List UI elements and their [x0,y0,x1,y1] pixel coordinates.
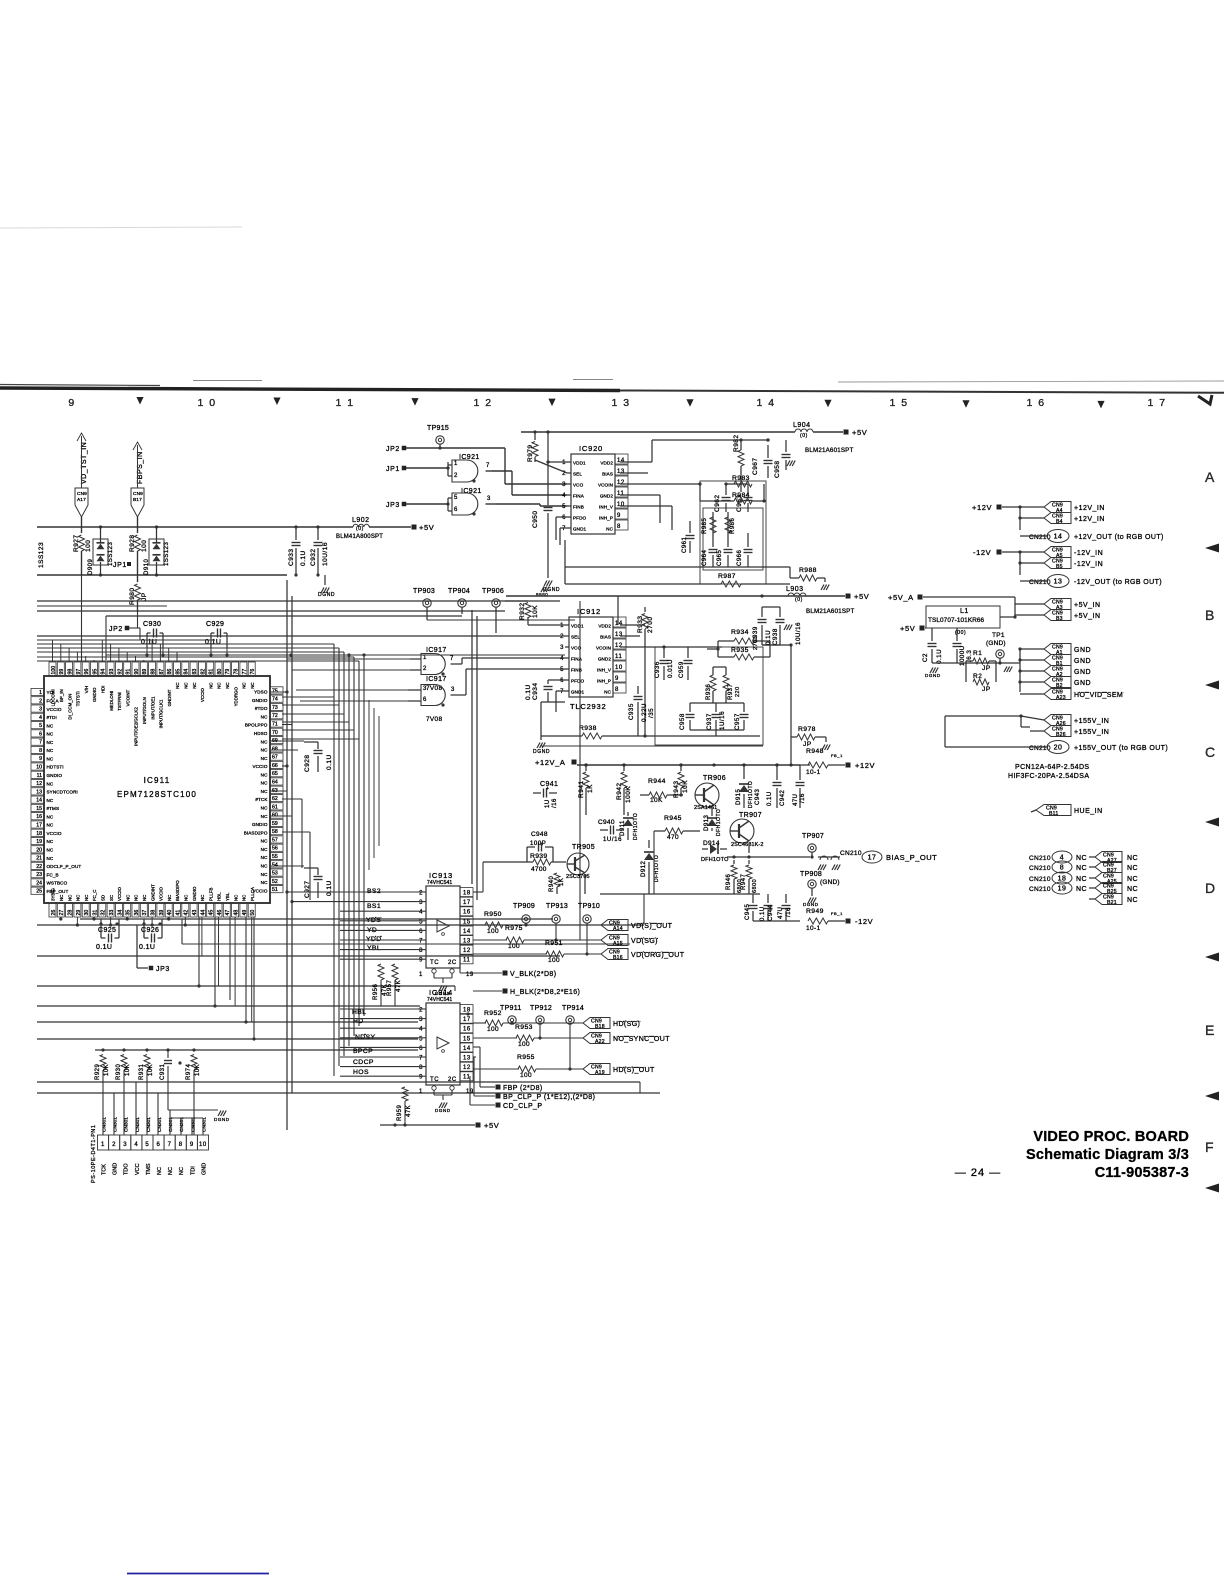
ground c939 [784,625,787,631]
svg-text:JP3: JP3 [386,502,400,509]
svg-text:R936: R936 [706,683,712,700]
ic IC914 body [426,1003,460,1085]
IC913 pin 12 [460,945,473,954]
svg-text:3: 3 [451,687,455,693]
svg-text:C935: C935 [628,703,635,720]
capacitor C958 [689,703,691,712]
svg-text:100: 100 [548,957,560,964]
wire hdr v5 [180,1118,182,1135]
svg-text:18: 18 [463,1008,471,1014]
svg-text:R947: R947 [741,873,747,890]
svg-text:NC: NC [208,682,213,688]
svg-text:CN301: CN301 [201,1117,207,1132]
svg-text:R982: R982 [733,434,740,452]
IC911 left pin 8 [31,746,44,753]
svg-text:-12V_OUT (to RGB OUT): -12V_OUT (to RGB OUT) [1074,579,1162,586]
svg-text:TLC2932: TLC2932 [570,702,606,711]
svg-text:DGND: DGND [925,673,941,678]
svg-text:NC: NC [261,772,268,777]
connector CN9 A19 [583,1064,610,1075]
svg-text:TR905: TR905 [572,844,595,851]
svg-text:92: 92 [117,669,123,675]
connector CN9 A15 [601,935,628,946]
wire IC920 vdd rail [521,431,795,433]
svg-text:CN9: CN9 [77,491,87,497]
svg-text:21: 21 [36,856,42,862]
connector CN9 B16 [601,949,628,960]
svg-text:0.01U: 0.01U [667,659,674,678]
svg-text:PLLCA: PLLCA [250,887,255,901]
svg-text:19: 19 [1058,886,1067,893]
IC911 right pin 57 [270,836,283,843]
svg-text:INH_V: INH_V [599,505,614,510]
svg-text:10U/16: 10U/16 [322,542,329,566]
svg-text:+5V_IN: +5V_IN [1074,602,1101,609]
svg-text:4700: 4700 [531,866,547,873]
svg-text:30: 30 [84,910,90,916]
svg-text:1 4: 1 4 [756,397,775,409]
wire hdr v1 [113,1093,115,1135]
IC911 bottom pin 37 [140,903,147,917]
svg-text:-12V: -12V [855,917,873,926]
svg-text:IC912: IC912 [577,607,601,616]
svg-text:100P: 100P [530,841,546,847]
svg-text:VCCIO: VCCIO [252,764,267,769]
IC911 bottom pin 29 [74,903,81,917]
IC914 pin 18 [460,1005,473,1014]
IC911 right pin 69 [270,736,283,743]
svg-text:NC: NC [47,781,54,786]
power flag +5V 2 [846,594,851,599]
svg-text:L904: L904 [793,422,811,429]
svg-text:36: 36 [134,910,140,916]
svg-text:NC: NC [184,895,189,901]
IC911 bottom pin 32 [99,903,106,917]
ground [824,578,826,582]
wire JP2 to VCO [406,447,505,449]
svg-text:NC: NC [225,682,230,688]
svg-text:D911: D911 [620,820,626,836]
margin arrow [1205,1184,1219,1193]
connector CN9 B3 [1044,610,1071,621]
svg-text:100K: 100K [625,786,632,803]
svg-text:/16: /16 [552,798,558,808]
IC911 top pin 91 [124,662,131,676]
IC911 bottom pin 30 [82,903,89,917]
svg-text:82: 82 [200,669,206,675]
IC911 top pin 85 [174,662,181,676]
wire hdr v7 [202,1118,204,1135]
wire left col x82 [81,575,83,662]
flag H_BLK [472,982,474,991]
svg-text:10: 10 [617,502,625,508]
svg-text:NC: NC [47,732,54,737]
wire tp feeds [427,619,575,621]
IC914 pin 15 [460,1033,473,1042]
svg-text:+155V_IN: +155V_IN [1074,729,1109,736]
svg-text:-12V: -12V [973,548,991,557]
ic IC913 body [426,886,460,968]
wire JP2 stub [129,627,140,629]
IC911 top pin 80 [215,662,222,676]
svg-text:61: 61 [272,804,278,810]
wire filter bottom [690,702,744,704]
svg-text:R950: R950 [484,911,502,918]
svg-text:C959: C959 [678,661,685,678]
svg-text:7V08: 7V08 [426,716,442,723]
svg-text:R934: R934 [731,629,749,636]
wire bias row [586,854,600,856]
svg-text:15: 15 [463,919,471,925]
svg-text:VCOIN: VCOIN [598,483,613,488]
svg-text:26: 26 [51,910,57,916]
IC912 pin 13 [613,628,626,638]
wire collector bus [586,814,624,816]
svg-text:NC: NC [261,789,268,794]
capacitor C962 [725,484,727,495]
svg-text:A22: A22 [595,1039,605,1045]
svg-text:DGND: DGND [803,902,819,907]
svg-text:35: 35 [126,910,132,916]
power flag -12V right [846,919,851,924]
svg-text:D915: D915 [736,788,742,805]
svg-text:10K: 10K [682,780,689,793]
svg-text:52: 52 [272,879,278,885]
wire ic917 feeds [287,658,410,660]
IC911 right pin 59 [270,819,283,826]
svg-text:JP2: JP2 [386,446,400,453]
svg-text:100: 100 [51,666,57,675]
svg-text:/16: /16 [786,907,792,917]
svg-text:PFDO: PFDO [571,679,584,684]
svg-text:PS-10PE-D4T1-PN1: PS-10PE-D4T1-PN1 [91,1125,97,1183]
svg-text:DGND: DGND [435,1108,451,1113]
resistor R931 [146,1050,148,1054]
svg-text:NC: NC [261,739,268,744]
IC911 top pin 78 [232,662,239,676]
svg-text:CN301: CN301 [168,1117,174,1132]
IC911 left pin 16 [31,813,44,820]
svg-text:NC: NC [47,814,54,819]
svg-text:TSTFRNI: TSTFRNI [117,692,122,711]
capacitor C933 [295,527,297,540]
svg-text:NC: NC [67,895,72,901]
svg-text:NC: NC [47,740,54,745]
svg-text:47: 47 [225,910,231,916]
svg-text:HDTSTI: HDTSTI [47,765,64,770]
wire verticals from IC911 bottom pins [60,917,62,919]
svg-text:NC: NC [250,682,255,688]
svg-text:BLM21A601SPT: BLM21A601SPT [805,447,854,454]
svg-text:5: 5 [419,919,423,925]
svg-text:6: 6 [562,515,566,521]
svg-text:BLM21A601SPT: BLM21A601SPT [806,608,855,615]
svg-text:YDSO: YDSO [254,690,268,695]
svg-text:MEDLONI: MEDLONI [109,691,114,711]
svg-text:20: 20 [1054,745,1063,752]
IC911 right pin 60 [270,811,283,818]
svg-text:1K: 1K [559,878,565,886]
svg-text:100: 100 [520,1072,532,1079]
svg-text:NC: NC [47,798,54,803]
svg-text:TP904: TP904 [448,588,470,595]
svg-text:23: 23 [36,872,42,878]
svg-text:74: 74 [272,697,278,703]
svg-text:DFH1OTO: DFH1OTO [716,809,722,836]
svg-text:39: 39 [159,910,165,916]
svg-text:BLM41A800SPT: BLM41A800SPT [336,534,383,540]
IC911 top pin 84 [182,662,189,676]
IC911 bottom pin 34 [115,903,122,917]
capacitor C942 [776,765,778,780]
svg-text:R946: R946 [726,873,732,890]
capacitor C950 [544,507,553,509]
svg-text:64: 64 [272,779,278,785]
IC911 top pin 97 [74,662,81,676]
svg-text:17: 17 [463,900,471,906]
wire vertical x472 [471,610,473,884]
IC911 left pin 15 [31,804,44,811]
svg-text:8: 8 [617,524,621,530]
svg-text:R939: R939 [530,853,547,860]
svg-text:44: 44 [200,910,206,916]
IC911 bottom pin 40 [165,903,172,917]
svg-text:5: 5 [454,495,458,501]
svg-text:3: 3 [39,707,42,713]
svg-text:7: 7 [39,740,42,746]
wire mid stubs right of IC911 [282,724,292,726]
connector CN9 A14 [601,920,628,931]
wire hdr v2 [135,1082,137,1135]
inductor L904 [620,431,795,433]
wire to +5V [813,431,843,433]
svg-text:83: 83 [192,669,198,675]
svg-text:NC: NC [184,682,189,688]
svg-text:BIAS: BIAS [602,472,613,477]
svg-text:R937: R937 [728,683,734,700]
svg-text:31: 31 [92,910,98,916]
svg-text:6: 6 [423,697,427,703]
svg-text:4: 4 [419,910,423,916]
capacitor C935 electrolytic [637,686,639,694]
svg-text:C939: C939 [752,626,759,643]
IC911 bottom pin 46 [215,903,222,917]
svg-text:INH_P: INH_P [599,516,613,521]
svg-text:V/H: V/H [84,686,89,693]
svg-text:13: 13 [1054,579,1063,586]
capacitor C959 [687,647,689,658]
svg-text:5: 5 [145,1142,149,1148]
svg-text:C964: C964 [702,549,708,566]
inductor L1 box [926,606,1000,628]
connector CN9 B26 [1044,726,1071,737]
resistor R982 [740,440,742,448]
svg-text:6: 6 [39,731,42,737]
svg-text:HD(S)_OUT: HD(S)_OUT [613,1067,655,1074]
wire inh [620,494,660,496]
svg-text:+12V_IN: +12V_IN [1074,516,1105,523]
svg-text:BIASDIPO: BIASDIPO [175,880,180,901]
IC912 pin 8 [613,683,626,693]
svg-text:10K: 10K [148,1064,154,1076]
wire vdd2 side [620,461,652,463]
wire bundle bends to IC913 [333,954,335,956]
svg-text:R955: R955 [517,1054,535,1061]
svg-text:EPM7128STC100: EPM7128STC100 [117,790,197,799]
svg-text:BP_IN: BP_IN [59,689,64,702]
IC911 bottom pin 38 [149,903,156,917]
svg-text:11: 11 [463,958,470,964]
wire vdd2 ic912 [620,624,645,626]
svg-text:VCCIO: VCCIO [117,887,122,901]
svg-text:HDSO: HDSO [254,731,268,736]
svg-text:R940: R940 [549,875,555,892]
connector CN9 B4 [1044,513,1071,524]
wire vertical bundle2 [368,700,370,870]
svg-text:2SC3705: 2SC3705 [566,874,590,880]
svg-text:94: 94 [101,669,107,675]
svg-text:TP909: TP909 [513,903,535,910]
svg-text:71: 71 [272,722,278,728]
IC912 pin 10 [613,661,626,671]
svg-text:8: 8 [39,748,42,754]
svg-text:11: 11 [37,773,42,779]
wire misc column x644 [643,894,645,924]
capacitor C2 [931,628,933,641]
svg-text:NC: NC [47,839,54,844]
svg-text:+5V_A: +5V_A [888,593,914,602]
diode D912 [648,840,650,848]
svg-text:1 2: 1 2 [473,397,492,409]
svg-text:1 1: 1 1 [335,397,354,409]
svg-text:57: 57 [272,837,278,843]
svg-text:VCO: VCO [573,483,584,488]
svg-text:NC: NC [125,895,130,901]
svg-text:HOS: HOS [353,1069,369,1076]
svg-text:NC: NC [1076,865,1087,872]
wire JP3 to gate inputs [406,503,448,505]
svg-text:87: 87 [159,669,165,675]
svg-text:8: 8 [615,687,619,693]
svg-text:/35: /35 [648,708,655,718]
wire sel diagonal [535,460,567,473]
svg-text:D909: D909 [88,558,94,575]
svg-text:-12V_IN: -12V_IN [1074,561,1103,568]
inductor L902 [353,524,369,527]
svg-text:C938: C938 [772,628,779,645]
svg-text:NC: NC [142,895,147,901]
svg-text:NC: NC [47,823,54,828]
svg-text:C958: C958 [679,713,686,730]
IC914 pin 12 [460,1062,473,1071]
IC913 pin 11 [460,955,473,964]
svg-text:YBL: YBL [225,892,230,901]
svg-text:R979: R979 [527,444,534,462]
IC911 bottom pin 28 [66,903,73,917]
svg-text:7: 7 [486,463,490,469]
wire right edge of IC911 to bundle [282,696,334,698]
wire top +5V bus [37,526,353,528]
svg-text:#TDI: #TDI [47,715,57,720]
wire nc chevron spine [1119,851,1121,904]
svg-text:IC913: IC913 [429,871,453,880]
svg-text:TMS: TMS [146,1163,152,1175]
svg-text:2C: 2C [448,1077,457,1083]
svg-text:3: 3 [419,900,423,906]
svg-text:11: 11 [617,491,624,497]
svg-text:6800: 6800 [752,879,758,893]
svg-text:CN210: CN210 [1029,865,1051,872]
wire jumper to CN210 17 [818,856,840,858]
IC911 top pin 93 [107,662,114,676]
svg-text:R944: R944 [648,778,666,785]
svg-text:0.1U: 0.1U [300,550,307,566]
svg-text:YBL: YBL [367,945,381,952]
svg-text:84: 84 [184,669,190,675]
IC913 pin 14 [460,926,473,935]
capacitor C932 electrolytic [317,527,319,540]
svg-text:VD_TST_IN: VD_TST_IN [81,442,88,484]
svg-text:1K: 1K [587,784,594,793]
svg-text:0.1U: 0.1U [936,649,943,664]
svg-text:L902: L902 [352,517,370,524]
svg-text:C942: C942 [780,789,786,806]
svg-text:C948: C948 [531,831,548,838]
filter box IC920 outer [700,481,766,584]
svg-text:0.1U: 0.1U [139,944,155,951]
wire pfdo gnd1 [556,690,565,692]
svg-text:FC_C: FC_C [92,890,97,901]
svg-text:#TMS: #TMS [47,806,60,811]
svg-text:10K: 10K [104,1064,110,1076]
margin arrow [1205,544,1219,553]
svg-text:10: 10 [615,665,623,671]
svg-text:BIAS: BIAS [600,635,611,640]
wire TR907 emitter down [748,843,750,853]
svg-text:NC: NC [604,690,611,695]
svg-text:NC: NC [168,1167,174,1175]
svg-text:R952: R952 [484,1010,502,1017]
resistor R957 [394,955,396,960]
IC911 top pin 94 [99,662,106,676]
svg-text:SEL: SEL [573,472,582,477]
svg-text:NC: NC [47,748,54,753]
svg-text:IC917: IC917 [426,676,447,683]
IC920 pin 13 [615,465,628,475]
IC911 top pin 86 [165,662,172,676]
svg-text:GNDIO: GNDIO [92,687,97,702]
svg-text:NC: NC [261,839,268,844]
flag CD_CLP_P [473,1075,476,1077]
wire -12V rail [753,920,786,922]
svg-text:(GND): (GND) [986,640,1006,647]
IC911 right pin 62 [270,794,283,801]
IC920 pin 9 [615,509,628,519]
svg-text:93: 93 [109,669,115,675]
svg-text:R956: R956 [373,983,379,1000]
svg-text:17: 17 [868,855,877,862]
svg-text:NC: NC [192,682,197,688]
svg-text:B18: B18 [595,1024,605,1030]
svg-text:20: 20 [36,847,42,853]
svg-text:96: 96 [84,669,90,675]
capacitor C927 [304,867,318,869]
svg-text:TP915: TP915 [427,425,449,432]
svg-text:VDD1: VDD1 [571,624,584,629]
IC911 right pin 73 [270,703,283,710]
svg-text:VCC: VCC [135,1163,141,1175]
svg-text:GND2: GND2 [598,657,612,662]
